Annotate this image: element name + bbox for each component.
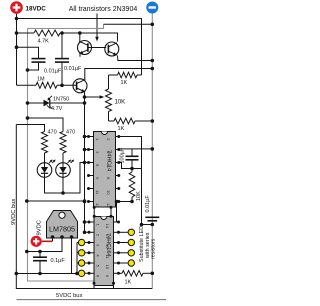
svg-text:470: 470 [66,130,75,136]
label 0.01uF rotated [145,195,151,213]
label 5VDC bus [56,293,83,299]
note all transistors 2N3904 [69,6,138,13]
svg-text:0.1µF: 0.1µF [51,258,66,264]
wire [39,252,41,274]
wire Q1 emitter stub [79,54,81,57]
junction [151,67,155,71]
label 10K [115,100,126,106]
svg-text:0.01µF: 0.01µF [145,195,151,213]
junction [75,272,79,276]
wire U1 pin2R cap rail [119,148,132,150]
wire [143,272,152,274]
wire [137,74,142,76]
svg-text:1K: 1K [118,126,125,132]
capacitor C3 100uF [126,156,139,160]
junction [26,116,30,120]
LED output left 3 [77,260,89,266]
wire 5V rail [16,273,77,275]
wire [17,32,35,34]
junction [130,200,134,204]
wire R6 feed [28,118,64,132]
junction [60,31,64,35]
label 470 [66,130,75,136]
LED output left 4 [77,270,89,276]
battery negative terminal [146,2,158,14]
junction [83,199,87,203]
wire Q1 collector [79,33,81,43]
resistor 1K [122,271,143,277]
label 100uF [120,147,126,163]
wire left frame [16,125,152,289]
wire [132,148,152,150]
wire [85,149,89,151]
svg-text:10K: 10K [115,100,126,106]
wire U2 input leg [52,237,54,241]
wire Q3 collector [85,69,153,81]
transistor Q2 [105,42,119,56]
svg-text:1N750: 1N750 [53,97,69,103]
wire 1M to Q3 base [57,84,77,86]
junction [15,45,19,49]
wire Q2 emitter [118,56,153,61]
label 1K [121,80,128,86]
wire U2 output leg [71,237,73,274]
resistor 4.7K [34,30,60,36]
wire return rail [104,23,153,25]
junction [38,272,42,276]
LED output right 1 [119,229,135,235]
svg-text:4.7K: 4.7K [38,39,50,45]
wire [44,153,46,163]
junction [60,84,64,88]
label 10K rotated [136,191,142,201]
svg-text:100µF: 100µF [120,147,126,163]
wire [109,74,118,76]
junction [38,250,42,254]
red wire to U2 input [42,240,53,242]
resistor R6 470 [60,132,66,154]
ground bus upper rail [28,24,104,28]
resistor R5 470 [42,132,48,154]
LED output right 4 [119,260,135,266]
wire +18V vertical [16,14,18,86]
svg-text:0.01µF: 0.01µF [44,69,62,75]
LED output left 2 [77,250,89,256]
wiper arrowhead [100,95,105,99]
junction [26,101,30,105]
svg-text:resistors: resistors [150,238,156,259]
wire [28,102,44,104]
U1 pins [87,135,120,203]
wire clock link [116,202,118,223]
wire pot bottom [108,112,110,122]
label 0.01uF [44,69,62,75]
wire LED rail [76,243,78,274]
capacitor C4 0.01uF [145,217,159,221]
label 0.1uF [51,258,66,264]
junction [130,167,134,171]
LED output left 1 [77,239,89,245]
label 9VDC bus [11,198,17,225]
wire U1 pin1R [119,137,142,169]
junction [83,95,87,99]
bottom rule [17,299,167,301]
wire top rail [17,19,142,76]
svg-text:9VDC: 9VDC [37,220,43,235]
wire [141,169,143,225]
wire C2 top [61,33,63,58]
junction [25,250,29,254]
wire [119,272,123,274]
junction [83,220,87,224]
label 1K [118,126,125,132]
wire R5 feed [16,125,44,132]
U1 pin numbers [95,138,111,208]
U2 leg dots [51,235,74,239]
svg-text:18VDC: 18VDC [26,5,47,12]
svg-text:470: 470 [48,130,57,136]
IC U3 74HC164 body [94,217,114,286]
note substitute LEDs [139,223,157,262]
wire [17,84,37,86]
label 9VDC [37,220,43,235]
wire 4.7K to Q2 collector [60,33,118,42]
wire [131,169,133,202]
note leader arrow [95,14,99,42]
label 74HC164 [105,233,111,257]
junction [140,223,144,227]
wire [17,47,39,58]
U3 pins [88,221,121,275]
junction [115,200,119,204]
zener diode 1N750 4.7V [44,98,52,108]
wire U3 bottom pins [93,282,116,289]
junction [151,147,155,151]
junction [26,68,30,72]
voltage regulator U2 LM7805 body [47,211,78,239]
supply positive tap [31,236,42,247]
wire U1-U3 link right [110,206,113,218]
junction [83,161,87,165]
wire [142,224,153,226]
wire C2 bottom [61,63,63,86]
wire LED cathodes [45,163,89,194]
LED D2 [37,160,55,178]
resistor 1M [36,82,57,88]
label 470 [48,130,57,136]
wire [85,231,90,233]
label 1M [37,77,45,83]
junction [83,231,87,235]
resistor 1K [118,72,138,78]
LED output right 3 [119,250,135,256]
svg-text:1K: 1K [121,80,128,86]
svg-text:12: 12 [105,244,110,249]
resistor 10K [129,172,135,197]
junction [25,199,29,203]
label LM7805 [49,225,75,234]
junction [15,31,19,35]
label 1K [125,280,132,286]
junction [83,101,87,105]
capacitor C2 0.01uF [55,59,69,63]
junction [61,191,65,195]
ground bus right vertical [151,14,153,289]
svg-text:14: 14 [105,224,110,229]
wire U1 pin6R [119,201,132,203]
IC U1 74HC14 body [94,132,116,208]
wire C1 bottom [28,63,39,70]
wire Q3 emitter vertical [84,92,86,233]
junction [151,223,155,227]
ground bus left vertical [28,29,95,282]
label 4.7K [38,39,50,45]
capacitor C1 0.01uF [32,59,46,63]
wire [85,136,89,138]
potentiometer 10K [106,89,112,112]
capacitor C5 0.1uF [33,257,47,261]
label 4.7V [47,105,63,112]
wire U2 ground leg [27,237,62,252]
svg-text:1K: 1K [125,280,132,286]
svg-text:13: 13 [95,203,100,208]
junction [83,148,87,152]
junction [151,272,155,276]
U3 pin numbers [96,224,111,278]
wire pot top [108,75,110,89]
junction [78,31,82,35]
svg-text:5VDC bus: 5VDC bus [56,293,83,299]
LED D3 [56,160,74,178]
wire Q1 base to Q2 base [88,47,106,49]
wire [135,120,152,122]
wire U1-U3 link left [93,206,96,218]
svg-text:1M: 1M [37,77,45,83]
wire [131,149,133,169]
resistor 1K [114,118,135,124]
wire bus tap [27,200,85,202]
transistor Q3 [73,79,87,93]
wire wiper [85,96,102,98]
svg-text:10: 10 [106,190,111,195]
svg-text:LM7805: LM7805 [49,225,75,234]
wire [62,177,64,193]
wire [62,153,64,163]
transistor Q1 [78,41,92,55]
battery positive terminal +18VDC [10,1,23,14]
svg-text:0.01µF: 0.01µF [64,66,82,72]
junction [151,59,155,63]
svg-text:4.7V: 4.7V [51,106,63,112]
wire U1 pin3R [119,163,142,169]
junction [83,135,87,139]
svg-text:All transistors 2N3904: All transistors 2N3904 [69,6,138,13]
label 18VDC [26,5,47,12]
junction [83,200,87,204]
wire [51,102,85,104]
junction [14,272,18,276]
wire [109,120,115,122]
label 1N750 [47,96,69,103]
junction [151,119,155,123]
label 74HC14 [105,150,111,172]
LED output right 2 [119,239,135,245]
label 0.01uF [64,66,82,72]
junction [151,23,155,27]
svg-text:13: 13 [105,234,110,239]
wire [85,221,90,223]
junction [15,17,19,21]
svg-text:10: 10 [105,265,110,270]
